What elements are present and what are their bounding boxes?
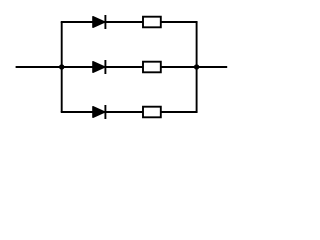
wire: bottom branch diode to resistor <box>105 111 143 113</box>
wire: bottom branch anode lead <box>61 111 93 113</box>
wire: left input terminal <box>16 66 62 68</box>
wire: right vertical bus <box>196 22 198 112</box>
diode D2 cathode bar <box>104 60 106 74</box>
diode D2 (middle branch) <box>93 62 105 73</box>
resistor R3 (bottom branch) <box>143 107 161 118</box>
resistor R1 (top branch) <box>143 17 161 28</box>
node: right junction <box>194 64 199 69</box>
wire: right output terminal <box>197 66 228 68</box>
diode D1 cathode bar <box>104 15 106 29</box>
wire: bottom branch resistor to right bus <box>161 111 198 113</box>
wire: top branch anode lead <box>61 21 93 23</box>
wire: top branch diode to resistor <box>105 21 143 23</box>
wire: middle branch resistor to right bus <box>161 66 197 68</box>
wire: left vertical bus <box>61 22 63 112</box>
diode D3 cathode bar <box>104 105 106 119</box>
diode D3 (bottom branch) <box>93 107 105 118</box>
wire: middle branch anode lead <box>62 66 93 68</box>
wire: middle branch diode to resistor <box>105 66 143 68</box>
resistor R2 (middle branch) <box>143 62 161 73</box>
wire: top branch resistor to right bus <box>161 21 198 23</box>
diode D1 (top branch) <box>93 17 105 28</box>
node: left junction <box>59 64 64 69</box>
